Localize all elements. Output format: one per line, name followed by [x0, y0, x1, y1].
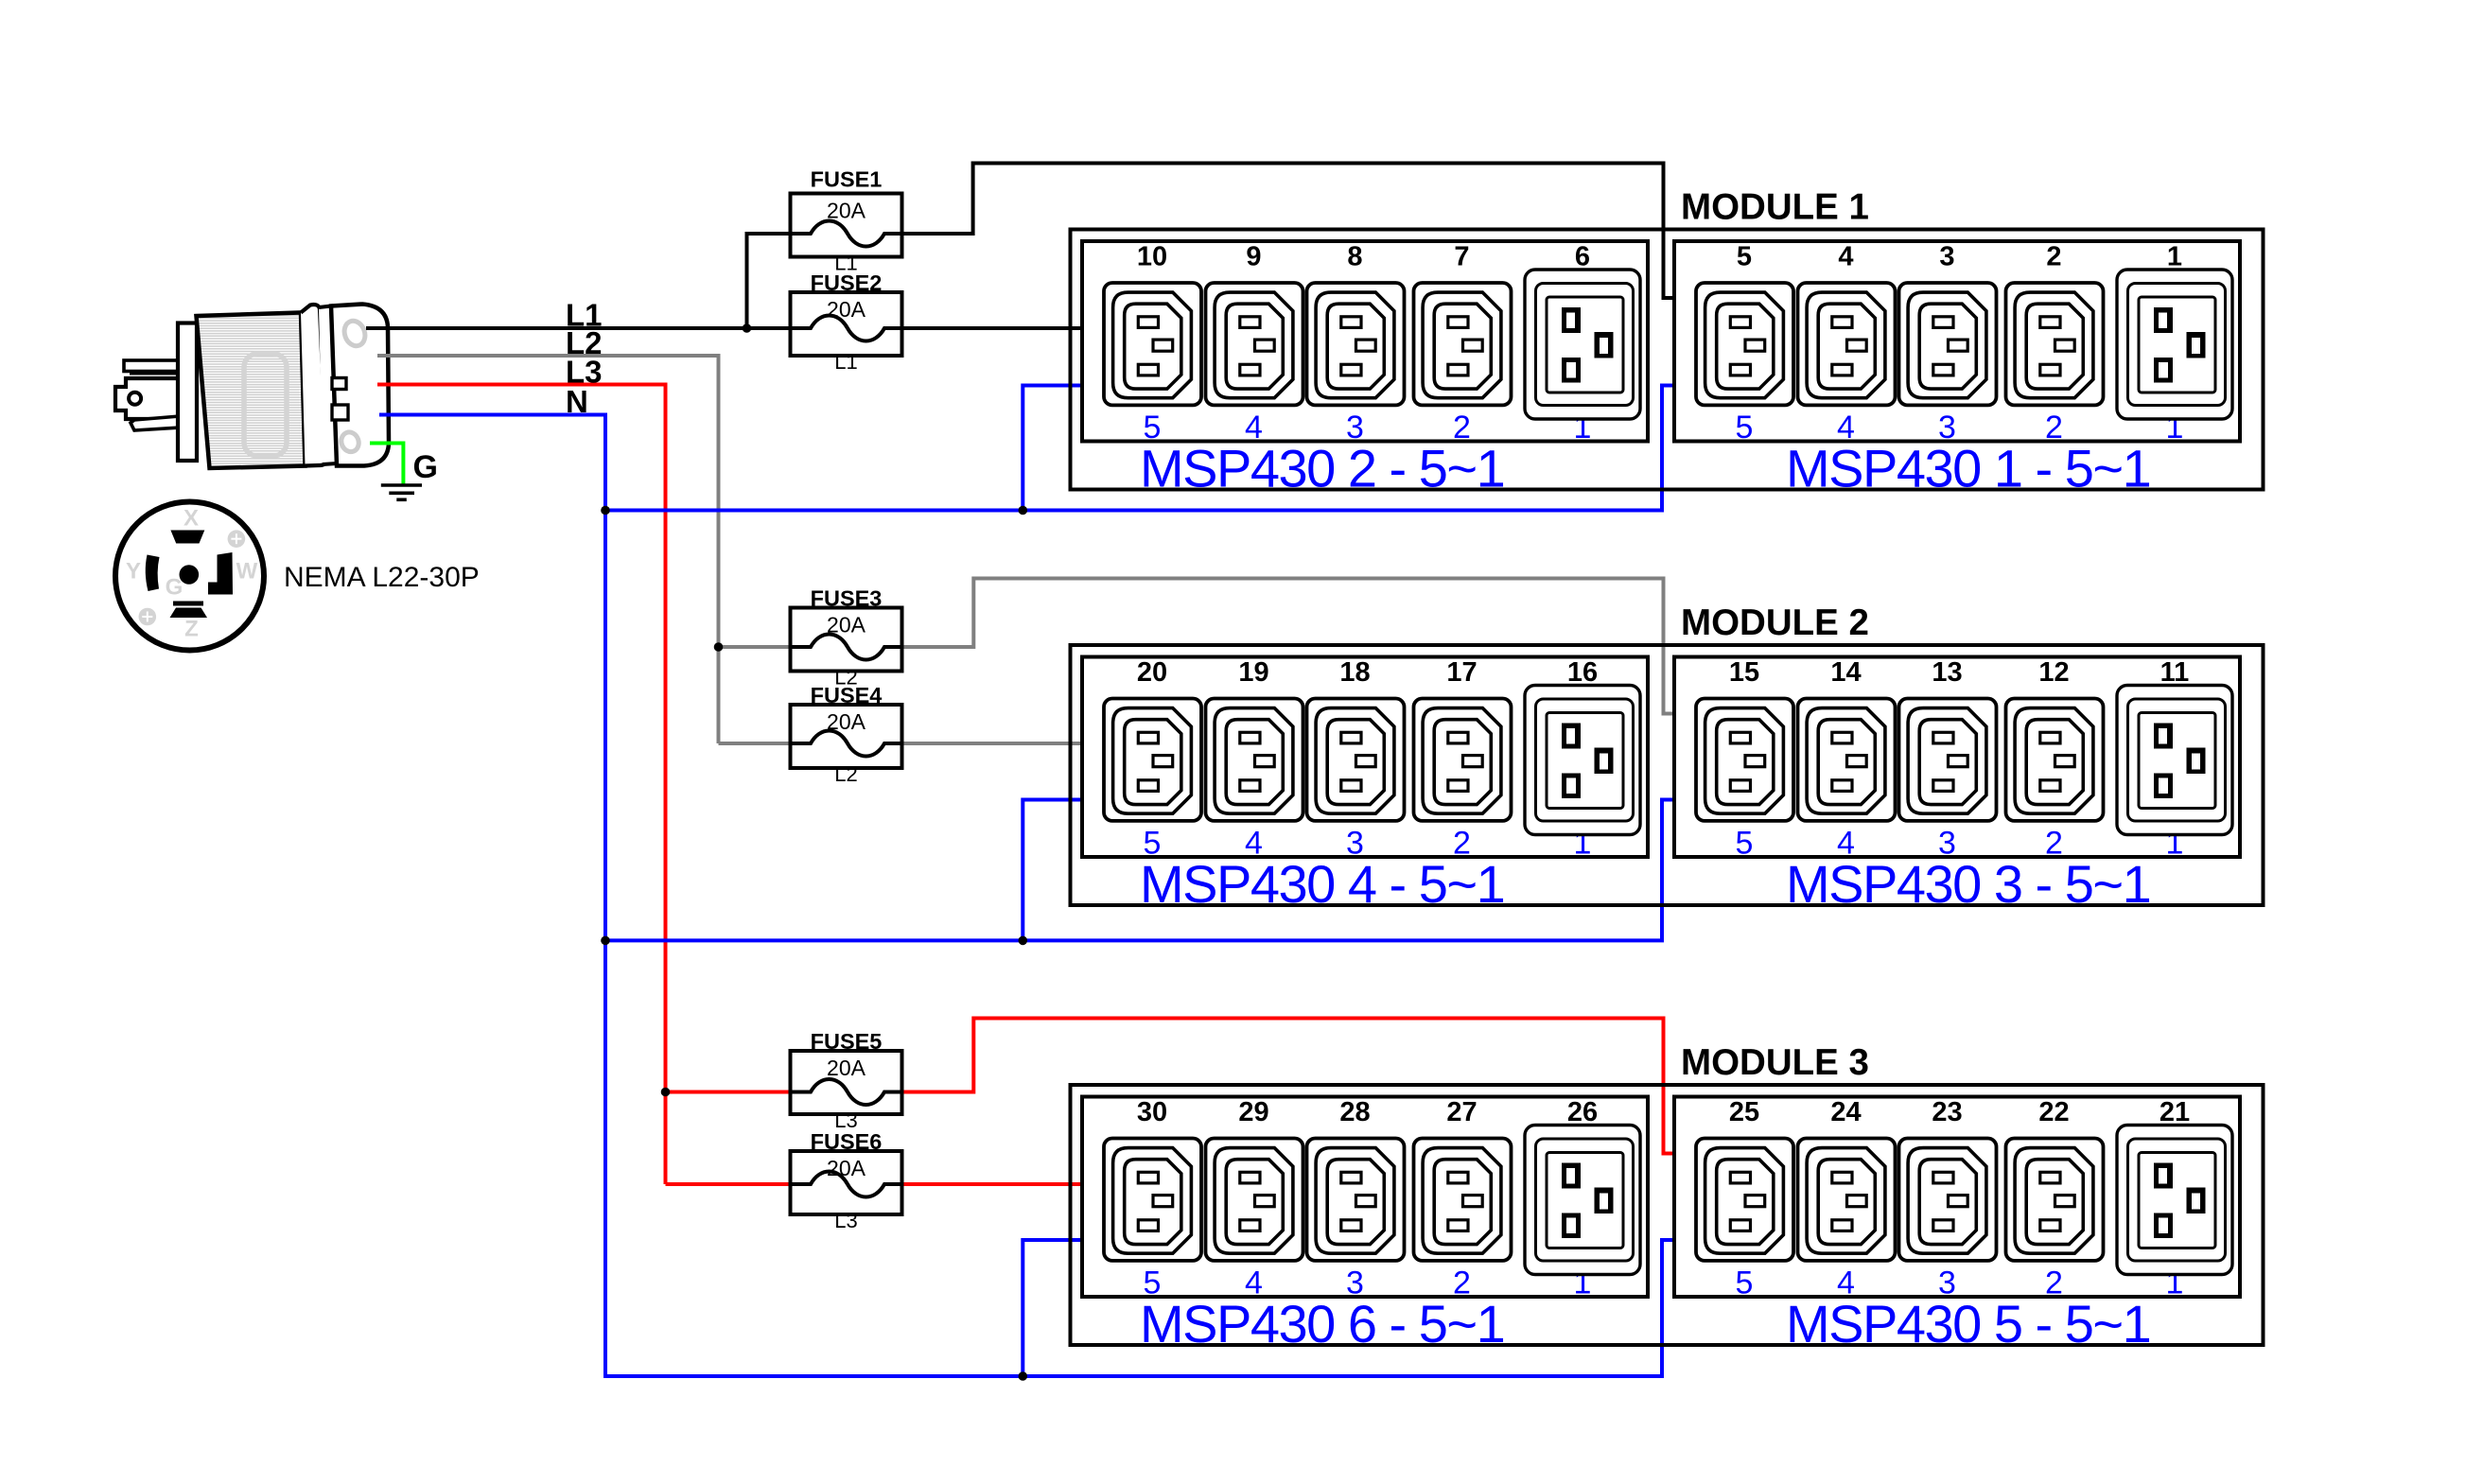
svg-text:29: 29 — [1238, 1097, 1268, 1127]
svg-text:15: 15 — [1729, 657, 1759, 688]
svg-text:FUSE4: FUSE4 — [811, 683, 883, 707]
svg-text:5: 5 — [1736, 826, 1754, 862]
svg-text:4: 4 — [1838, 242, 1853, 272]
svg-text:L3: L3 — [834, 1209, 857, 1232]
svg-text:G: G — [413, 449, 438, 485]
svg-text:20A: 20A — [827, 1156, 866, 1180]
svg-text:5: 5 — [1736, 410, 1754, 445]
svg-text:27: 27 — [1446, 1097, 1477, 1127]
svg-text:11: 11 — [2160, 657, 2190, 688]
svg-text:23: 23 — [1932, 1097, 1962, 1127]
svg-text:N: N — [566, 384, 588, 419]
svg-text:16: 16 — [1567, 657, 1598, 688]
svg-text:FUSE5: FUSE5 — [811, 1029, 883, 1054]
svg-text:MSP430 3 - 5~1: MSP430 3 - 5~1 — [1786, 854, 2150, 914]
svg-text:MSP430 5 - 5~1: MSP430 5 - 5~1 — [1786, 1294, 2150, 1353]
svg-text:22: 22 — [2038, 1097, 2069, 1127]
svg-text:Z: Z — [184, 617, 199, 642]
svg-text:Y: Y — [126, 559, 141, 585]
svg-text:X: X — [184, 506, 199, 532]
svg-text:19: 19 — [1238, 657, 1268, 688]
svg-text:10: 10 — [1137, 242, 1167, 272]
svg-text:5: 5 — [1737, 242, 1752, 272]
svg-text:26: 26 — [1567, 1097, 1598, 1127]
svg-text:MSP430 6 - 5~1: MSP430 6 - 5~1 — [1140, 1294, 1504, 1353]
svg-text:30: 30 — [1137, 1097, 1167, 1127]
svg-text:FUSE6: FUSE6 — [811, 1129, 883, 1154]
svg-text:FUSE3: FUSE3 — [811, 586, 883, 611]
svg-text:5: 5 — [1736, 1266, 1754, 1301]
svg-text:MSP430 4 - 5~1: MSP430 4 - 5~1 — [1140, 854, 1504, 914]
svg-text:L2: L2 — [834, 762, 857, 786]
svg-text:L1: L1 — [834, 350, 857, 374]
svg-text:MODULE 3: MODULE 3 — [1681, 1042, 1869, 1083]
svg-text:28: 28 — [1339, 1097, 1370, 1127]
svg-text:21: 21 — [2160, 1097, 2190, 1127]
svg-text:NEMA L22-30P: NEMA L22-30P — [284, 562, 480, 593]
svg-text:7: 7 — [1454, 242, 1469, 272]
svg-text:20A: 20A — [827, 199, 866, 223]
svg-text:FUSE2: FUSE2 — [811, 271, 883, 295]
svg-text:FUSE1: FUSE1 — [811, 167, 883, 192]
svg-text:14: 14 — [1830, 657, 1861, 688]
svg-text:20A: 20A — [827, 709, 866, 734]
svg-text:24: 24 — [1830, 1097, 1861, 1127]
svg-text:18: 18 — [1339, 657, 1370, 688]
svg-text:MSP430 2 - 5~1: MSP430 2 - 5~1 — [1140, 439, 1504, 498]
svg-text:6: 6 — [1575, 242, 1590, 272]
svg-text:9: 9 — [1246, 242, 1261, 272]
svg-text:12: 12 — [2038, 657, 2069, 688]
svg-text:G: G — [166, 575, 184, 601]
svg-text:20A: 20A — [827, 613, 866, 637]
svg-text:MODULE 2: MODULE 2 — [1681, 602, 1869, 643]
svg-text:20: 20 — [1137, 657, 1167, 688]
svg-text:13: 13 — [1932, 657, 1962, 688]
svg-text:MSP430 1 - 5~1: MSP430 1 - 5~1 — [1786, 439, 2150, 498]
svg-text:3: 3 — [1939, 242, 1954, 272]
svg-text:1: 1 — [2167, 242, 2182, 272]
svg-text:17: 17 — [1446, 657, 1477, 688]
svg-text:20A: 20A — [827, 1056, 866, 1080]
svg-text:2: 2 — [2046, 242, 2061, 272]
svg-text:W: W — [236, 559, 258, 585]
svg-text:25: 25 — [1729, 1097, 1759, 1127]
svg-text:MODULE 1: MODULE 1 — [1681, 187, 1869, 228]
svg-text:8: 8 — [1347, 242, 1362, 272]
svg-text:20A: 20A — [827, 297, 866, 322]
